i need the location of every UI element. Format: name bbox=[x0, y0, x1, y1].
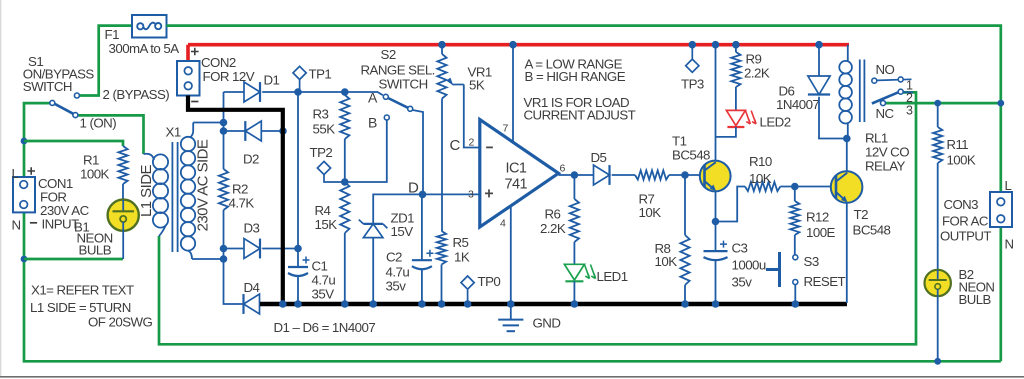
resistor R8 bbox=[680, 235, 689, 285]
diode D4 bbox=[244, 294, 260, 314]
resistor R11 bbox=[933, 127, 942, 163]
svg-text:741: 741 bbox=[505, 177, 528, 193]
label FOR 12V bbox=[203, 69, 255, 84]
svg-text:100E: 100E bbox=[806, 225, 836, 240]
junction R6 tap bbox=[571, 171, 579, 179]
wire CON3 live below box to N return (right green) bbox=[999, 227, 1002, 361]
svg-text:10K: 10K bbox=[749, 171, 772, 186]
capacitor C3 bbox=[704, 241, 728, 261]
label pin 4 bbox=[500, 218, 506, 230]
svg-text:100K: 100K bbox=[947, 153, 976, 168]
LED LED1 bbox=[564, 264, 595, 281]
label 1000u C3 bbox=[732, 258, 766, 273]
label 100K R1 bbox=[80, 167, 110, 182]
label 230V AC bbox=[40, 203, 90, 218]
label 2.2K R6 bbox=[540, 221, 566, 236]
label D6 bbox=[779, 84, 795, 99]
transistor T1 bbox=[700, 161, 731, 192]
label TP3 bbox=[681, 77, 704, 92]
ground symbol GND bbox=[498, 306, 523, 331]
svg-text:2.2K: 2.2K bbox=[744, 66, 770, 81]
test point TP3 bbox=[686, 46, 699, 72]
label 10K R8 bbox=[655, 254, 678, 269]
resistor R3 bbox=[340, 95, 349, 139]
wire T2 collector to relay bbox=[846, 139, 848, 172]
svg-text:R12: R12 bbox=[806, 210, 829, 225]
svg-text:C1: C1 bbox=[312, 259, 328, 274]
label C1 bbox=[312, 259, 328, 274]
wire ZD1 to ground bbox=[372, 238, 374, 304]
svg-text:D5: D5 bbox=[591, 150, 607, 165]
label 4.7u C2 bbox=[386, 265, 410, 280]
svg-text:NC: NC bbox=[876, 106, 895, 121]
wire R8 to ground bbox=[684, 285, 686, 304]
note OF 20SWG bbox=[88, 315, 153, 330]
label L1 SIDE bbox=[138, 164, 155, 217]
plus CON1 bbox=[27, 167, 35, 175]
wire D1 anode bbox=[224, 91, 245, 93]
junction D2-ground bbox=[279, 127, 287, 135]
label pin 3 bbox=[468, 189, 474, 201]
wire R10 to T2 base bbox=[780, 186, 837, 188]
junction node D bbox=[419, 191, 427, 199]
svg-text:D2: D2 bbox=[243, 152, 259, 167]
connector CON3 bbox=[990, 192, 1012, 227]
svg-text:2: 2 bbox=[469, 136, 475, 148]
svg-text:35v: 35v bbox=[386, 279, 407, 294]
junction T1 emitter node bbox=[712, 218, 720, 226]
label D1-D6 = 1N4007 bbox=[274, 320, 376, 335]
label FOR CON1 bbox=[40, 190, 66, 205]
svg-text:X1: X1 bbox=[166, 125, 181, 140]
svg-text:S3: S3 bbox=[804, 254, 819, 269]
svg-text:C2: C2 bbox=[386, 250, 402, 265]
plus CON2 bbox=[191, 48, 199, 56]
label INPUT bbox=[42, 217, 80, 232]
label 2 (BYPASS) bbox=[103, 87, 170, 102]
resistor R9 bbox=[731, 52, 740, 87]
label F1 bbox=[105, 27, 120, 42]
label IC1 bbox=[506, 161, 527, 177]
label 35v C3 bbox=[732, 275, 753, 290]
label NO bbox=[876, 62, 895, 77]
wire bridge left vertical top bbox=[223, 92, 225, 169]
label pin 7 bbox=[503, 123, 509, 135]
svg-text:S2: S2 bbox=[381, 47, 396, 62]
wire Vcc to VR1 bbox=[441, 45, 443, 54]
minus CON1 bbox=[30, 222, 37, 224]
capacitor C1 bbox=[288, 257, 310, 277]
resistor R4 bbox=[340, 182, 349, 233]
wire secondary bottom to bridge bbox=[192, 258, 224, 260]
wire B1 to N return bbox=[122, 222, 124, 259]
note B = HIGH RANGE bbox=[525, 69, 626, 84]
svg-text:4.7K: 4.7K bbox=[229, 196, 255, 211]
transformer X1 primary winding L1 bbox=[144, 154, 169, 236]
label 12V CO bbox=[865, 145, 909, 160]
wire R11 to B2 bbox=[937, 163, 939, 270]
wire T2 emitter to ground bbox=[846, 202, 848, 303]
wire B2 to N return bbox=[937, 289, 939, 361]
label TP2 bbox=[310, 145, 333, 160]
svg-text:L: L bbox=[1005, 178, 1012, 193]
diode D5 bbox=[594, 165, 610, 185]
label R9 bbox=[746, 52, 762, 67]
wire D2 cathode bbox=[224, 130, 246, 132]
svg-text:LED2: LED2 bbox=[760, 115, 791, 130]
wire pin7 to Vcc bbox=[512, 45, 514, 143]
svg-text:RANGE SEL.: RANGE SEL. bbox=[361, 63, 435, 78]
wire VR1 wiper to pin2 bbox=[464, 85, 479, 148]
label L CON3 bbox=[1005, 178, 1012, 193]
wire R3 bottom to divider node bbox=[344, 139, 346, 182]
wire VR1 bottom to R5 bbox=[441, 99, 443, 232]
label A contact bbox=[368, 90, 378, 106]
label R8 bbox=[655, 241, 671, 256]
wire R12 to S3 bbox=[794, 235, 796, 255]
svg-text:TP0: TP0 bbox=[478, 274, 501, 289]
wire T1 collector to Vcc bbox=[715, 45, 717, 162]
test point TP1 bbox=[293, 66, 306, 89]
fuse F1 bbox=[132, 15, 167, 38]
svg-text:D3: D3 bbox=[244, 221, 260, 236]
svg-text:35V: 35V bbox=[312, 287, 335, 302]
svg-text:CURRENT ADJUST: CURRENT ADJUST bbox=[524, 108, 636, 123]
svg-text:R3: R3 bbox=[313, 107, 329, 122]
svg-text:SWITCH: SWITCH bbox=[379, 77, 428, 92]
svg-text:L: L bbox=[12, 166, 19, 181]
transformer X1 secondary winding bbox=[181, 123, 195, 260]
label 15V ZD1 bbox=[391, 224, 414, 239]
label D2 bbox=[243, 152, 259, 167]
label RL1 bbox=[865, 131, 888, 146]
svg-text:LED1: LED1 bbox=[597, 269, 628, 284]
junction R8 tap bbox=[681, 171, 689, 179]
label terminal 2 bbox=[906, 91, 913, 105]
switch S2 contact B bbox=[384, 115, 389, 120]
label X1 bbox=[166, 125, 181, 140]
svg-text:35v: 35v bbox=[732, 275, 753, 290]
switch S1 arm bbox=[55, 104, 74, 114]
label 100E R12 bbox=[806, 225, 836, 240]
label N CON1 bbox=[12, 218, 21, 233]
svg-text:15K: 15K bbox=[315, 217, 338, 232]
label C2 bbox=[386, 250, 402, 265]
resistor R7 bbox=[635, 170, 669, 179]
junction C1 top node bbox=[294, 245, 302, 253]
wire bottom N return (bottom green rail) bbox=[24, 103, 1001, 361]
label 741 bbox=[505, 177, 528, 193]
label 55K R3 bbox=[313, 122, 336, 137]
junction CON2-ground bbox=[279, 300, 287, 308]
junction VR1-Vcc bbox=[438, 41, 446, 49]
junction CON1-N tap bbox=[21, 256, 28, 263]
svg-text:BC548: BC548 bbox=[853, 223, 891, 238]
wire C3 to ground bbox=[715, 260, 717, 304]
svg-text:6: 6 bbox=[560, 163, 566, 175]
label TP1 bbox=[309, 67, 332, 82]
wire LED2 to T1 collector bbox=[716, 127, 736, 137]
label BULB B1 bbox=[79, 243, 112, 258]
label CON2 bbox=[201, 55, 236, 70]
svg-text:5K: 5K bbox=[469, 78, 485, 93]
wire R7 to T1 base bbox=[669, 174, 700, 176]
wire S1 ON contact to L1 primary bbox=[78, 115, 144, 154]
wire D6 to T2 collector bbox=[819, 97, 847, 139]
svg-text:15V: 15V bbox=[391, 224, 414, 239]
switch S2 arm bbox=[388, 98, 408, 108]
label L CON1 bbox=[12, 166, 19, 181]
svg-text:F1: F1 bbox=[105, 27, 120, 42]
junction R4-ground bbox=[341, 300, 349, 308]
svg-text:NO: NO bbox=[876, 62, 895, 77]
label RELAY bbox=[865, 159, 906, 174]
diode D1 bbox=[244, 82, 260, 102]
svg-text:2.2K: 2.2K bbox=[540, 221, 566, 236]
wire fuse to CON3 live (top green rail) bbox=[167, 26, 1001, 192]
Vcc +12V rail (red) bbox=[188, 43, 849, 47]
svg-text:R5: R5 bbox=[453, 235, 469, 250]
wire node D to pin3 bbox=[423, 193, 480, 195]
label B contact bbox=[368, 115, 377, 131]
label NEON B2 bbox=[959, 280, 995, 295]
label ON/BYPASS bbox=[23, 67, 95, 82]
svg-text:300mA to 5A: 300mA to 5A bbox=[109, 41, 180, 56]
junction R12 tap bbox=[791, 183, 799, 191]
label R5 bbox=[453, 235, 469, 250]
svg-text:TP3: TP3 bbox=[681, 77, 704, 92]
label terminal 1 bbox=[906, 79, 913, 93]
junction R11 top tap bbox=[934, 100, 941, 107]
junction secondary-top node bbox=[220, 119, 228, 127]
label R6 bbox=[545, 207, 561, 222]
label 300mA to 5A bbox=[109, 41, 180, 56]
svg-text:A: A bbox=[368, 90, 378, 106]
junction R9-Vcc bbox=[732, 41, 740, 49]
svg-text:L1 SIDE = 5TURN: L1 SIDE = 5TURN bbox=[30, 300, 131, 315]
wire CON1-L to R1 top bbox=[24, 141, 123, 146]
wire sense to A contact bbox=[345, 92, 383, 95]
label 230V AC SIDE bbox=[195, 139, 212, 231]
wire S3 to ground bbox=[794, 285, 796, 305]
svg-text:R6: R6 bbox=[545, 207, 561, 222]
svg-text:TP2: TP2 bbox=[310, 145, 333, 160]
label 10K R10 bbox=[749, 171, 772, 186]
resistor R10 bbox=[745, 182, 780, 191]
label OUTPUT bbox=[940, 229, 991, 244]
wire S2 pole to node D bbox=[413, 110, 424, 194]
resistor R2 bbox=[219, 169, 228, 210]
wire D5 to R7 bbox=[612, 174, 635, 176]
svg-text:1N4007: 1N4007 bbox=[776, 97, 819, 112]
wire C1 to ground bbox=[297, 276, 299, 304]
svg-text:12V CO: 12V CO bbox=[865, 145, 909, 160]
label CON1 bbox=[38, 176, 73, 191]
resistor R1 bbox=[118, 146, 127, 184]
label 1K R5 bbox=[454, 250, 470, 265]
label R2 bbox=[232, 182, 248, 197]
label D5 bbox=[591, 150, 607, 165]
junction D2 node bbox=[220, 127, 228, 135]
svg-text:D1: D1 bbox=[264, 73, 280, 88]
svg-text:R10: R10 bbox=[749, 154, 772, 169]
label CON3 bbox=[944, 197, 979, 212]
label GND bbox=[533, 316, 561, 331]
svg-text:10K: 10K bbox=[639, 205, 662, 220]
minus CON2 bbox=[191, 101, 198, 103]
wire Vcc to R9 bbox=[735, 45, 737, 52]
potentiometer VR1 bbox=[437, 54, 463, 99]
page frame left rule bbox=[0, 0, 2, 376]
wire LED1 to ground bbox=[573, 281, 575, 304]
svg-text:R2: R2 bbox=[232, 182, 248, 197]
capacitor C2 bbox=[412, 250, 434, 270]
wire pin4 to ground bbox=[510, 207, 512, 305]
wire bridge left vertical bottom bbox=[224, 210, 244, 304]
svg-text:4.7u: 4.7u bbox=[312, 273, 336, 288]
label D3 bbox=[244, 221, 260, 236]
wire R4 bottom to ground bbox=[344, 233, 346, 304]
transistor T2 bbox=[831, 171, 863, 203]
label NEON B1 bbox=[77, 231, 113, 246]
label 100K R11 bbox=[947, 153, 976, 168]
wire D4 anode to rail bbox=[260, 303, 263, 305]
wire R6 to LED1 bbox=[573, 242, 575, 264]
label R7 bbox=[639, 192, 655, 207]
svg-text:R1: R1 bbox=[83, 153, 99, 168]
svg-text:1 (ON): 1 (ON) bbox=[80, 116, 117, 131]
svg-text:R11: R11 bbox=[947, 137, 969, 152]
switch S2 pole bbox=[408, 106, 413, 111]
label 35v C2 bbox=[386, 279, 407, 294]
svg-text:RELAY: RELAY bbox=[865, 159, 906, 174]
junction T1 collector-Vcc bbox=[712, 41, 720, 49]
switch S1 pole contact bbox=[50, 100, 55, 105]
wire output to R6 bbox=[573, 175, 575, 199]
wire D1 cathode to sense node bbox=[262, 91, 345, 93]
junction TP0-ground bbox=[464, 300, 472, 308]
svg-text:R9: R9 bbox=[746, 52, 762, 67]
wire T1 emitter down bbox=[715, 191, 717, 251]
wire R12 top bbox=[794, 187, 796, 202]
svg-text:N: N bbox=[12, 218, 21, 233]
svg-text:FOR 12V: FOR 12V bbox=[203, 69, 255, 84]
wire CON2 plus to Vcc rail bbox=[186, 45, 190, 61]
svg-text:1000u: 1000u bbox=[732, 258, 766, 273]
svg-text:RL1: RL1 bbox=[865, 131, 888, 146]
relay NO contact bbox=[872, 77, 912, 83]
label 35V C1 bbox=[312, 287, 335, 302]
svg-text:T1: T1 bbox=[672, 134, 687, 149]
junction pin7-Vcc bbox=[509, 41, 517, 49]
op-amp plus input sign bbox=[485, 189, 493, 197]
svg-text:C3: C3 bbox=[732, 241, 748, 256]
label VR1 bbox=[468, 65, 492, 80]
label 2.2K R9 bbox=[744, 66, 770, 81]
wire C2 to ground bbox=[421, 269, 423, 304]
wire Vcc to D6 bbox=[818, 45, 820, 76]
svg-text:TP1: TP1 bbox=[309, 67, 332, 82]
label BC548 T1 bbox=[672, 148, 710, 163]
wire pin6 output bbox=[559, 174, 594, 176]
connector CON2 bbox=[177, 61, 200, 96]
svg-text:B: B bbox=[368, 115, 377, 131]
junction R3 top bbox=[341, 88, 349, 96]
push switch S3 bbox=[766, 252, 798, 287]
svg-text:100K: 100K bbox=[80, 167, 110, 182]
label D4 bbox=[244, 280, 260, 295]
connector CON1 bbox=[13, 177, 35, 212]
svg-text:230V AC SIDE: 230V AC SIDE bbox=[195, 139, 212, 231]
svg-text:D4: D4 bbox=[244, 280, 260, 295]
switch S1 on contact bbox=[73, 113, 78, 118]
junction T2 collector node bbox=[843, 135, 851, 143]
label S3 bbox=[804, 254, 819, 269]
label N CON3 bbox=[1005, 237, 1014, 252]
wire R9 to LED2 bbox=[735, 87, 737, 110]
label S1 bbox=[28, 54, 43, 69]
label LED2 bbox=[760, 115, 791, 130]
label R4 bbox=[315, 203, 331, 218]
label BC548 T2 bbox=[853, 223, 891, 238]
wire B contact to divider node bbox=[345, 120, 387, 182]
svg-text:R4: R4 bbox=[315, 203, 331, 218]
wire secondary top to bridge bbox=[193, 122, 223, 124]
junction C3-ground bbox=[712, 300, 720, 308]
junction secondary-bottom node bbox=[220, 255, 228, 263]
neon bulb B1 bbox=[108, 200, 139, 231]
switch S2 contact A bbox=[383, 94, 388, 99]
test point TP0 bbox=[461, 276, 474, 302]
svg-text:2 (BYPASS): 2 (BYPASS) bbox=[103, 87, 170, 102]
label 1 (ON) bbox=[80, 116, 117, 131]
relay coil RL1 bbox=[839, 45, 852, 139]
svg-text:CON3: CON3 bbox=[944, 197, 979, 212]
label 1N4007 D6 bbox=[776, 97, 819, 112]
wire D3 cathode bbox=[262, 248, 298, 250]
wire live to R11 bbox=[937, 103, 939, 127]
relay pole arm bbox=[872, 89, 913, 103]
junction D6-Vcc bbox=[815, 41, 823, 49]
label R10 bbox=[749, 154, 772, 169]
label BULB B2 bbox=[959, 292, 992, 307]
label RESET S3 bbox=[804, 274, 846, 289]
wire D1 cathode down to C1 bbox=[297, 92, 299, 267]
note VR1 IS FOR LOAD bbox=[524, 95, 630, 110]
label T2 bbox=[854, 207, 869, 222]
relay core bbox=[860, 60, 865, 123]
svg-text:CON2: CON2 bbox=[201, 55, 236, 70]
junction B2 bottom tap bbox=[934, 358, 941, 365]
ground rail bbox=[260, 302, 847, 306]
label T1 bbox=[672, 134, 687, 149]
wire CON2 minus to ground rail (black) bbox=[188, 96, 283, 304]
label B1 bbox=[74, 220, 89, 235]
label C3 bbox=[732, 241, 748, 256]
svg-text:RESET: RESET bbox=[804, 274, 846, 289]
svg-text:T2: T2 bbox=[854, 207, 869, 222]
wire emitter to R10 bbox=[716, 187, 746, 222]
wire bypass-contact to fuse F1 bbox=[79, 26, 132, 96]
label SWITCH S2 bbox=[379, 77, 428, 92]
svg-text:4.7u: 4.7u bbox=[386, 265, 410, 280]
svg-text:SWITCH: SWITCH bbox=[23, 79, 72, 94]
wire node D to ZD1 bbox=[373, 194, 422, 223]
junction ZD1-ground bbox=[369, 300, 377, 308]
label 4.7u C1 bbox=[312, 273, 336, 288]
label R3 bbox=[313, 107, 329, 122]
op-amp IC1 bbox=[480, 120, 559, 228]
